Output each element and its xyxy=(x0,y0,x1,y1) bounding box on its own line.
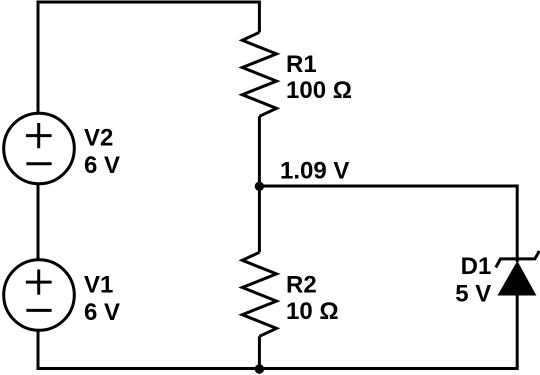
wire: node to D1 top (1.09 V net) xyxy=(259,186,517,262)
zener diode D1 cathode bar with bent ends xyxy=(496,251,540,268)
svg-text:V2: V2 xyxy=(84,125,113,152)
svg-text:R2: R2 xyxy=(286,272,317,299)
resistor R2 xyxy=(242,252,276,336)
wire: V2+ up, top rail, down to R1 top xyxy=(38,2,259,114)
zener diode D1 anode triangle xyxy=(498,261,537,296)
voltage source V1 xyxy=(4,260,75,331)
wire: R1 bottom to node xyxy=(258,116,261,186)
svg-text:1.09 V: 1.09 V xyxy=(280,158,349,185)
svg-text:V1: V1 xyxy=(84,272,113,299)
node dot 1.09 V junction xyxy=(255,182,264,191)
svg-text:10 Ω: 10 Ω xyxy=(286,298,339,325)
resistor R1 xyxy=(242,32,276,116)
svg-text:5 V: 5 V xyxy=(455,280,491,307)
voltage source V2 xyxy=(4,113,75,184)
svg-text:D1: D1 xyxy=(461,253,492,280)
wire: R2 bottom to bottom rail xyxy=(258,336,261,368)
junction dot bottom rail xyxy=(255,364,264,373)
svg-text:R1: R1 xyxy=(286,51,317,78)
wire: node to R2 top xyxy=(258,186,261,252)
svg-text:100 Ω: 100 Ω xyxy=(286,77,352,104)
wire: V1- down, bottom rail, up to D1 bottom xyxy=(38,294,517,369)
svg-text:6 V: 6 V xyxy=(84,152,120,179)
wire: V2- to V1+ xyxy=(37,184,40,261)
svg-text:6 V: 6 V xyxy=(84,299,120,326)
